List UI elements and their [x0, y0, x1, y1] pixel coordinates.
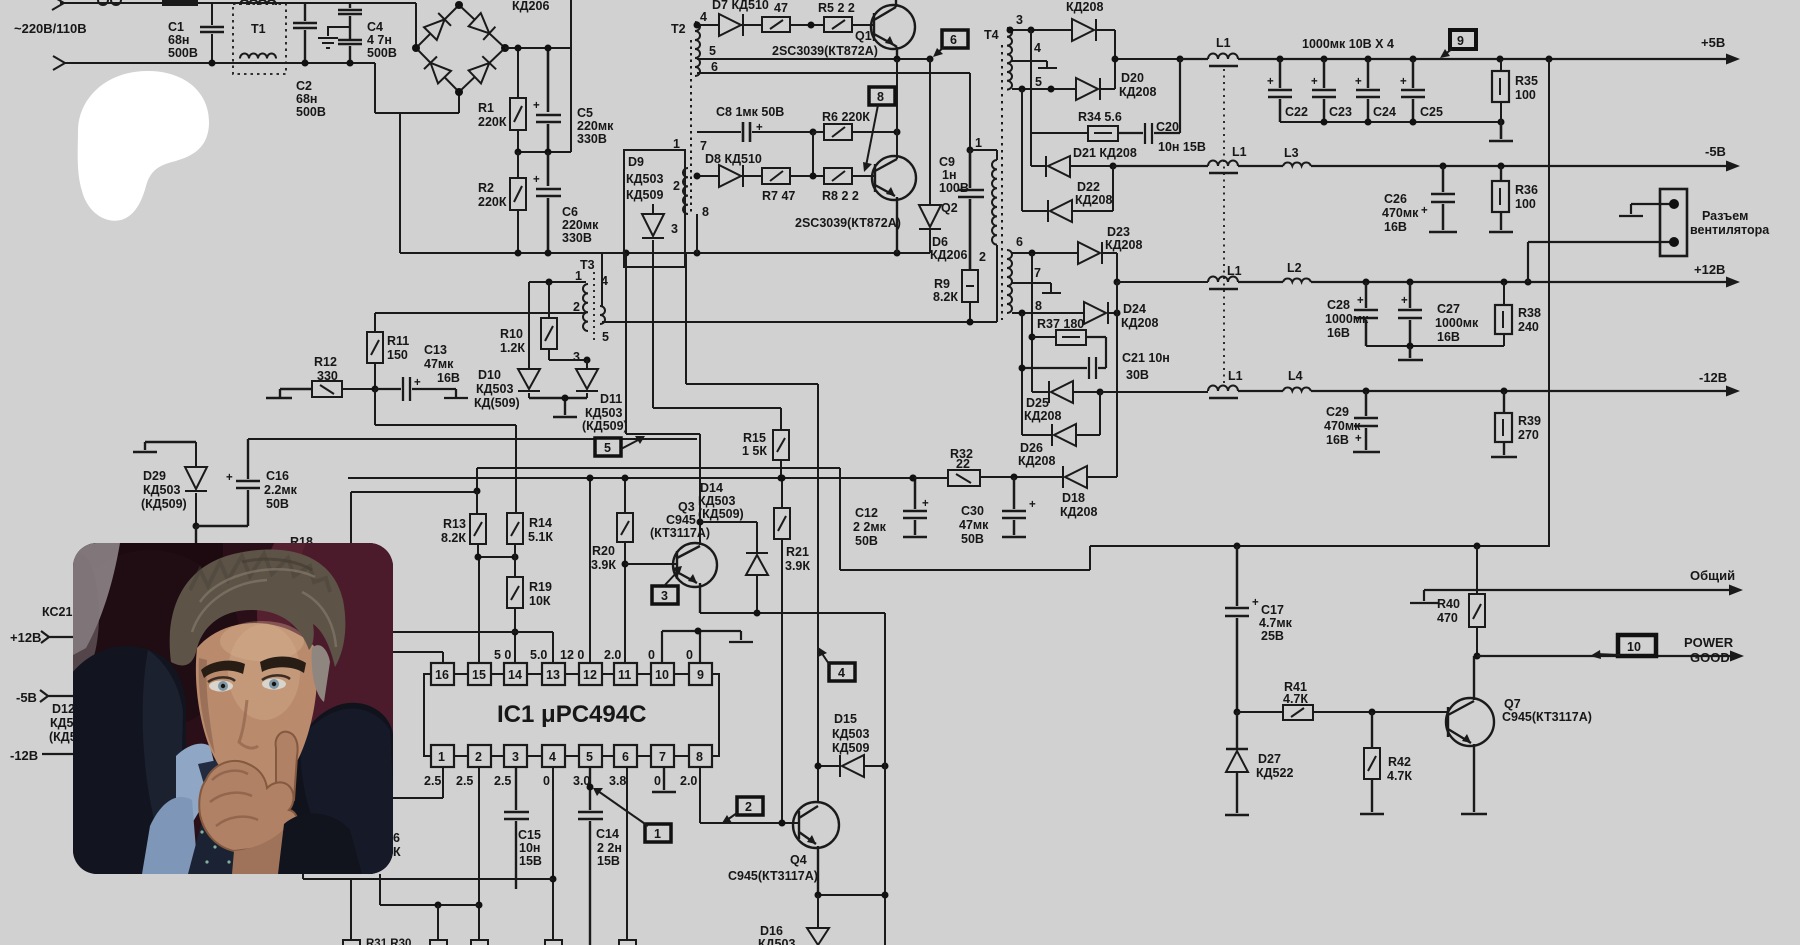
- svg-text:10н 15В: 10н 15В: [1158, 140, 1206, 154]
- transformer T1 dotted box: [233, 4, 286, 74]
- resistor R40: [1476, 546, 1478, 656]
- node label box 3: [652, 586, 678, 604]
- svg-text:2.0: 2.0: [604, 648, 621, 662]
- svg-text:C24: C24: [1373, 105, 1396, 119]
- svg-text:8: 8: [877, 90, 884, 104]
- capacitor C16: [196, 439, 260, 545]
- wire T2 pin6 line: [697, 73, 970, 150]
- photo shirt right collar: [256, 742, 292, 788]
- capacitor C3 (upper of C4 stack): [338, 3, 362, 40]
- svg-text:C6: C6: [562, 205, 578, 219]
- svg-text:4 7н: 4 7н: [367, 33, 392, 47]
- resistor R5: [824, 17, 852, 32]
- svg-text:470мк: 470мк: [1324, 419, 1361, 433]
- IC pin box 1-8: [431, 745, 712, 767]
- diode D25: [1032, 381, 1049, 403]
- svg-text:50В: 50В: [961, 532, 984, 546]
- ground left of R12: [266, 389, 312, 398]
- wire T2 pin5 line: [697, 58, 930, 60]
- svg-text:100: 100: [1515, 88, 1536, 102]
- wire pin1 T4 / line6 junction: [967, 147, 974, 154]
- svg-text:R34 5.6: R34 5.6: [1078, 110, 1122, 124]
- svg-text:+: +: [756, 122, 763, 134]
- transformer T4 primary winding: [992, 160, 997, 245]
- svg-text:16В: 16В: [1437, 330, 1460, 344]
- bridge diode upper-left: [424, 13, 451, 40]
- svg-text:220мк: 220мк: [577, 119, 614, 133]
- svg-text:11: 11: [618, 668, 631, 682]
- node label box 2: [737, 797, 763, 815]
- T2 primary winding upper: [695, 22, 700, 76]
- bridge nodes: [455, 1, 463, 9]
- svg-text:9: 9: [697, 668, 704, 682]
- svg-text:10н: 10н: [519, 841, 540, 855]
- photo eyes: [209, 681, 233, 692]
- svg-text:22: 22: [956, 457, 970, 471]
- photo of man (overlay): [45, 480, 460, 935]
- svg-text:POWER: POWER: [1684, 635, 1734, 650]
- svg-text:C16: C16: [266, 469, 289, 483]
- node C4: [347, 60, 354, 67]
- photo gray sideburn: [312, 645, 330, 702]
- IC1 uPC494C body outline: [424, 674, 719, 756]
- photo face: [196, 623, 317, 793]
- wire riser R15 feed: [653, 253, 781, 430]
- svg-text:D9: D9: [628, 155, 644, 169]
- svg-text:+: +: [1400, 76, 1407, 88]
- node C2: [302, 60, 309, 67]
- svg-text:C2: C2: [296, 79, 312, 93]
- inductor L2: [1283, 279, 1311, 282]
- svg-text:R31 R30: R31 R30: [366, 938, 411, 945]
- svg-text:1: 1: [654, 827, 661, 841]
- T4 secondary winding lower: [1007, 250, 1012, 313]
- IC bottom pin connecting wires: [454, 755, 689, 757]
- fan connector box: [1660, 189, 1687, 256]
- svg-text:0: 0: [654, 774, 661, 788]
- svg-text:C29: C29: [1326, 405, 1349, 419]
- svg-text:D12: D12: [52, 702, 75, 716]
- transformer T3 core: [593, 272, 595, 340]
- svg-text:+: +: [1355, 76, 1362, 88]
- svg-text:КД509: КД509: [832, 741, 869, 755]
- resistor stubs at bottom edge: [343, 940, 636, 945]
- wire T2 secondary bottom to rail: [696, 214, 698, 253]
- svg-text:12: 12: [583, 668, 597, 682]
- inductor L1 winding b (-5): [1208, 161, 1238, 166]
- svg-text:R39: R39: [1518, 414, 1541, 428]
- svg-text:15: 15: [472, 668, 486, 682]
- wire bottom bus y879: [303, 872, 553, 879]
- svg-text:500В: 500В: [296, 105, 326, 119]
- svg-text:Q1: Q1: [855, 29, 872, 43]
- svg-text:R19: R19: [529, 580, 552, 594]
- transistor Q3: [673, 543, 717, 587]
- photo tie: [198, 758, 233, 798]
- capacitor C24: [1356, 59, 1380, 122]
- svg-text:47: 47: [774, 1, 788, 15]
- wire -12V rail: [1238, 390, 1727, 392]
- diode D14: [700, 522, 768, 613]
- input chevron bottom: [53, 56, 65, 70]
- wire bottom bus y905: [380, 874, 479, 905]
- svg-text:R12: R12: [314, 355, 337, 369]
- svg-text:10: 10: [655, 668, 669, 682]
- wire T2 pin4 line: [697, 24, 719, 26]
- svg-text:150: 150: [387, 348, 408, 362]
- input chevron top: [52, 0, 64, 10]
- svg-text:КД208: КД208: [1075, 193, 1112, 207]
- capacitor C23: [1312, 59, 1336, 122]
- photo hair: [170, 549, 346, 667]
- svg-text:220К: 220К: [478, 115, 507, 129]
- svg-text:+: +: [1357, 295, 1364, 307]
- svg-text:D16: D16: [760, 924, 783, 938]
- svg-text:470мк: 470мк: [1382, 206, 1419, 220]
- ground below C27: [1398, 346, 1423, 360]
- wire bottom rail: [400, 252, 930, 254]
- capacitor C9: [958, 150, 984, 270]
- resistor R21: [781, 478, 783, 824]
- ground / D29: [133, 442, 196, 452]
- svg-text:8.2К: 8.2К: [933, 290, 958, 304]
- svg-text:Q3: Q3: [678, 500, 695, 514]
- wire pin6 riser down: [626, 767, 628, 940]
- wire Q4 emitter bus: [818, 894, 885, 896]
- wire common line: [1410, 590, 1730, 603]
- wire pin6 bus down: [1031, 253, 1033, 392]
- svg-text:C22: C22: [1285, 105, 1308, 119]
- diode D29: [185, 442, 207, 526]
- svg-text:2: 2: [475, 750, 482, 764]
- svg-text:C9: C9: [939, 155, 955, 169]
- wire pin10/pin9 riser and ground: [662, 631, 753, 663]
- svg-text:КД503: КД503: [698, 494, 735, 508]
- svg-text:47мк: 47мк: [424, 357, 454, 371]
- svg-text:C17: C17: [1261, 603, 1284, 617]
- svg-text:IC1 μPC494C: IC1 μPC494C: [497, 701, 646, 728]
- wire T4 pin5 line: [1012, 88, 1076, 90]
- +5V arrow: [1726, 54, 1740, 65]
- svg-text:L1: L1: [1216, 36, 1231, 50]
- svg-text:D29: D29: [143, 469, 166, 483]
- svg-text:R2: R2: [478, 181, 494, 195]
- svg-text:+: +: [226, 472, 233, 484]
- svg-text:D26: D26: [1020, 441, 1043, 455]
- diode D26: [1022, 424, 1052, 446]
- svg-text:14: 14: [508, 668, 522, 682]
- svg-text:C15: C15: [518, 828, 541, 842]
- capacitor C17: [1225, 546, 1249, 712]
- nodes at y48: [515, 45, 522, 52]
- resistor R14: [507, 513, 523, 544]
- svg-text:2: 2: [673, 179, 680, 193]
- svg-text:C20: C20: [1156, 120, 1179, 134]
- svg-text:КД208: КД208: [1024, 409, 1061, 423]
- svg-text:+: +: [1267, 76, 1274, 88]
- svg-text:2.5: 2.5: [456, 774, 473, 788]
- wire Q1 emitter to Q2 collector: [813, 59, 897, 176]
- svg-text:C1: C1: [168, 20, 184, 34]
- wire bridge to bottom rail: [399, 113, 401, 253]
- node label box 6: [942, 30, 968, 48]
- diode D8: [719, 165, 741, 187]
- svg-text:C23: C23: [1329, 105, 1352, 119]
- T1 winding top: [240, 0, 276, 5]
- photo face left shadow: [199, 658, 215, 754]
- svg-text:R37 180: R37 180: [1037, 317, 1084, 331]
- resistor R32: [910, 475, 917, 482]
- wire AC input top line: [60, 3, 416, 48]
- wire pin8 bus down: [1021, 313, 1023, 435]
- capacitor C12: [903, 478, 927, 537]
- wire pin15 riser: [478, 557, 480, 663]
- svg-text:2: 2: [573, 300, 580, 314]
- wire AC input bottom line: [65, 63, 459, 113]
- svg-text:-12В: -12В: [10, 748, 38, 763]
- capacitor C20: [1118, 59, 1180, 144]
- wire pin13 riser and y632 line: [393, 632, 553, 663]
- L1 core bar top: [1209, 65, 1238, 68]
- resistor R2: [517, 152, 519, 253]
- photo sleeve over wrist: [278, 813, 362, 874]
- svg-text:5.1К: 5.1К: [528, 530, 553, 544]
- svg-text:КД208: КД208: [1018, 454, 1055, 468]
- svg-text:4: 4: [700, 10, 707, 24]
- svg-text:D23: D23: [1107, 225, 1130, 239]
- svg-text:T3: T3: [580, 258, 595, 272]
- svg-text:~220В/110В: ~220В/110В: [14, 21, 87, 36]
- capacitor C8: [743, 122, 750, 142]
- svg-text:C8 1мк 50В: C8 1мк 50В: [716, 105, 784, 119]
- svg-text:1: 1: [438, 750, 445, 764]
- svg-text:10К: 10К: [529, 594, 551, 608]
- svg-text:(КД509): (КД509): [582, 419, 628, 433]
- wire Q3 emitter line: [700, 612, 885, 614]
- resistor R9: [962, 270, 978, 302]
- svg-text:240: 240: [1518, 320, 1539, 334]
- wire T3 pin1: [529, 281, 586, 283]
- wire bridge output: [505, 0, 571, 152]
- photo eyebrows: [201, 661, 245, 678]
- photo shirt bottom left: [142, 797, 198, 874]
- resistor R42: [1360, 712, 1384, 814]
- svg-text:R42: R42: [1388, 755, 1411, 769]
- diode D19 +5V: [1072, 19, 1094, 41]
- svg-text:T2: T2: [671, 22, 686, 36]
- wire R13/R14 bottom bus: [478, 556, 515, 558]
- svg-text:КД208: КД208: [1105, 238, 1142, 252]
- diode D11: [576, 360, 598, 398]
- transformer T2 core: [690, 40, 692, 215]
- IC pin box 16: [431, 663, 712, 685]
- svg-text:3: 3: [661, 589, 668, 603]
- svg-text:6: 6: [622, 750, 629, 764]
- svg-text:3: 3: [512, 750, 519, 764]
- capacitor C6: [536, 152, 561, 253]
- svg-text:(КД509): (КД509): [141, 497, 187, 511]
- wire node5 path: [626, 253, 700, 545]
- wire mid bus y152: [518, 151, 571, 153]
- svg-text:R9: R9: [934, 277, 950, 291]
- svg-text:D6: D6: [932, 235, 948, 249]
- photo tie dots: [200, 796, 235, 863]
- svg-text:10: 10: [1627, 640, 1641, 654]
- photo wrist: [232, 829, 292, 874]
- capacitor C5: [536, 48, 561, 152]
- svg-text:R7 47: R7 47: [762, 189, 795, 203]
- wire pin4 riser down: [552, 767, 554, 940]
- svg-text:1: 1: [975, 136, 982, 150]
- svg-text:2.0: 2.0: [680, 774, 697, 788]
- svg-text:R36: R36: [1515, 183, 1538, 197]
- svg-text:+: +: [414, 377, 421, 389]
- wire reference rail y478: [348, 477, 914, 479]
- wire riser to R31: [351, 879, 438, 940]
- svg-text:68н: 68н: [296, 92, 317, 106]
- node label box 4: [829, 663, 855, 681]
- transistor Q1: [871, 5, 915, 49]
- svg-text:7: 7: [1034, 266, 1041, 280]
- photo gray blur top-left: [73, 543, 120, 655]
- svg-text:5: 5: [709, 44, 716, 58]
- svg-text:4: 4: [1034, 41, 1041, 55]
- svg-text:D22: D22: [1077, 180, 1100, 194]
- wire feedback line y468: [477, 468, 840, 491]
- capacitor C30: [1002, 477, 1026, 537]
- wire riser x686 and y384 link: [686, 253, 818, 384]
- svg-text:+: +: [1311, 76, 1318, 88]
- svg-text:16В: 16В: [1327, 326, 1350, 340]
- inductor L3: [1283, 163, 1311, 166]
- wire pin12 riser: [589, 478, 591, 663]
- resistor R39: [1491, 391, 1517, 457]
- wire Q3 collector node: [697, 519, 704, 526]
- svg-text:D24: D24: [1123, 302, 1146, 316]
- inductor L4: [1283, 388, 1311, 391]
- svg-text:КД503: КД503: [143, 483, 180, 497]
- svg-text:Общий: Общий: [1690, 568, 1735, 583]
- svg-text:3.8: 3.8: [609, 774, 626, 788]
- capacitor C25: [1401, 59, 1425, 122]
- wire R11 top to T3 pin2: [375, 312, 586, 314]
- resistor R19: [514, 544, 516, 577]
- IC top pin connecting wires: [454, 673, 689, 675]
- svg-text:2SC3039(КТ872А): 2SC3039(КТ872А): [795, 216, 901, 230]
- svg-text:КД208: КД208: [1121, 316, 1158, 330]
- svg-text:12 0: 12 0: [560, 648, 584, 662]
- wire T4 pin7 center tap: [1012, 283, 1061, 293]
- resistor R36: [1489, 166, 1513, 232]
- nodes at y152: [515, 149, 522, 156]
- capacitor C26: [1429, 166, 1457, 232]
- svg-text:3.9К: 3.9К: [591, 558, 616, 572]
- svg-text:1.2К: 1.2К: [500, 341, 525, 355]
- svg-text:R1: R1: [478, 101, 494, 115]
- svg-text:5: 5: [1035, 75, 1042, 89]
- wire right vertical x885: [884, 613, 886, 945]
- svg-text:+5В: +5В: [1701, 35, 1725, 50]
- node label box 9: [1450, 30, 1476, 49]
- wire T4 pin3 line: [1007, 29, 1072, 31]
- photo background maroon glow: [257, 490, 447, 740]
- transistor Q7: [1446, 698, 1494, 746]
- svg-text:-5В: -5В: [16, 690, 37, 705]
- diode D23: [1078, 242, 1100, 264]
- photo suit right: [272, 703, 393, 874]
- svg-text:T4: T4: [984, 28, 999, 42]
- svg-text:270: 270: [1518, 428, 1539, 442]
- svg-text:L3: L3: [1284, 146, 1299, 160]
- svg-text:2SC3039(КТ872А): 2SC3039(КТ872А): [772, 44, 878, 58]
- svg-text:4.7К: 4.7К: [1387, 769, 1412, 783]
- svg-text:5: 5: [604, 441, 611, 455]
- svg-text:3: 3: [671, 222, 678, 236]
- svg-text:R10: R10: [500, 327, 523, 341]
- svg-text:R11: R11: [387, 334, 409, 348]
- wire -12 rail start: [1100, 391, 1208, 393]
- svg-text:2.2мк: 2.2мк: [264, 483, 298, 497]
- svg-text:16В: 16В: [1384, 220, 1407, 234]
- svg-text:D20: D20: [1121, 71, 1144, 85]
- svg-text:(КД5: (КД5: [49, 730, 77, 744]
- node C1/bottom line: [209, 60, 216, 67]
- T2 secondary winding lower: [683, 168, 688, 214]
- wire T4 pin4 center tap: [1012, 61, 1057, 68]
- diode D20: [1076, 78, 1098, 100]
- wire -5V rail: [1113, 165, 1727, 167]
- svg-text:330В: 330В: [562, 231, 592, 245]
- svg-text:КД206: КД206: [512, 0, 549, 13]
- svg-text:220К: 220К: [478, 195, 507, 209]
- node label box 1: [645, 824, 671, 842]
- svg-text:220мк: 220мк: [562, 218, 599, 232]
- svg-text:4.7мк: 4.7мк: [1259, 616, 1293, 630]
- svg-text:C13: C13: [424, 343, 447, 357]
- svg-text:16В: 16В: [437, 371, 460, 385]
- wire C13 reference loop: [375, 389, 516, 513]
- svg-text:D25: D25: [1026, 396, 1049, 410]
- svg-text:КД503: КД503: [585, 406, 622, 420]
- wire T3 pin4 to rail: [601, 253, 603, 306]
- svg-text:100В: 100В: [939, 181, 969, 195]
- svg-text:1 5К: 1 5К: [742, 444, 767, 458]
- svg-text:L1: L1: [1227, 264, 1242, 278]
- svg-text:L2: L2: [1287, 261, 1302, 275]
- resistor R10: [549, 282, 587, 360]
- wire pin2 riser down: [478, 767, 480, 940]
- svg-text:D8 КД510: D8 КД510: [705, 152, 762, 166]
- wire pin3 bus down: [1030, 30, 1032, 166]
- svg-text:D11: D11: [600, 392, 622, 406]
- resistor R34: [1031, 132, 1088, 134]
- svg-text:КД503: КД503: [758, 937, 795, 945]
- svg-text:15В: 15В: [597, 854, 620, 868]
- svg-text:C30: C30: [961, 504, 984, 518]
- svg-text:+12В: +12В: [1694, 262, 1725, 277]
- svg-text:1000мк 10В X 4: 1000мк 10В X 4: [1302, 37, 1394, 51]
- photo hair texture: [192, 569, 336, 647]
- diode D15: [818, 755, 885, 777]
- photo suit left lapel highlight: [143, 650, 183, 840]
- svg-text:R21: R21: [786, 545, 809, 559]
- svg-text:5.0: 5.0: [530, 648, 547, 662]
- svg-text:16: 16: [435, 668, 449, 682]
- svg-text:КД503: КД503: [476, 382, 513, 396]
- diode D18: [1062, 466, 1064, 488]
- capacitor C14: [578, 767, 603, 945]
- svg-text:470: 470: [1437, 611, 1458, 625]
